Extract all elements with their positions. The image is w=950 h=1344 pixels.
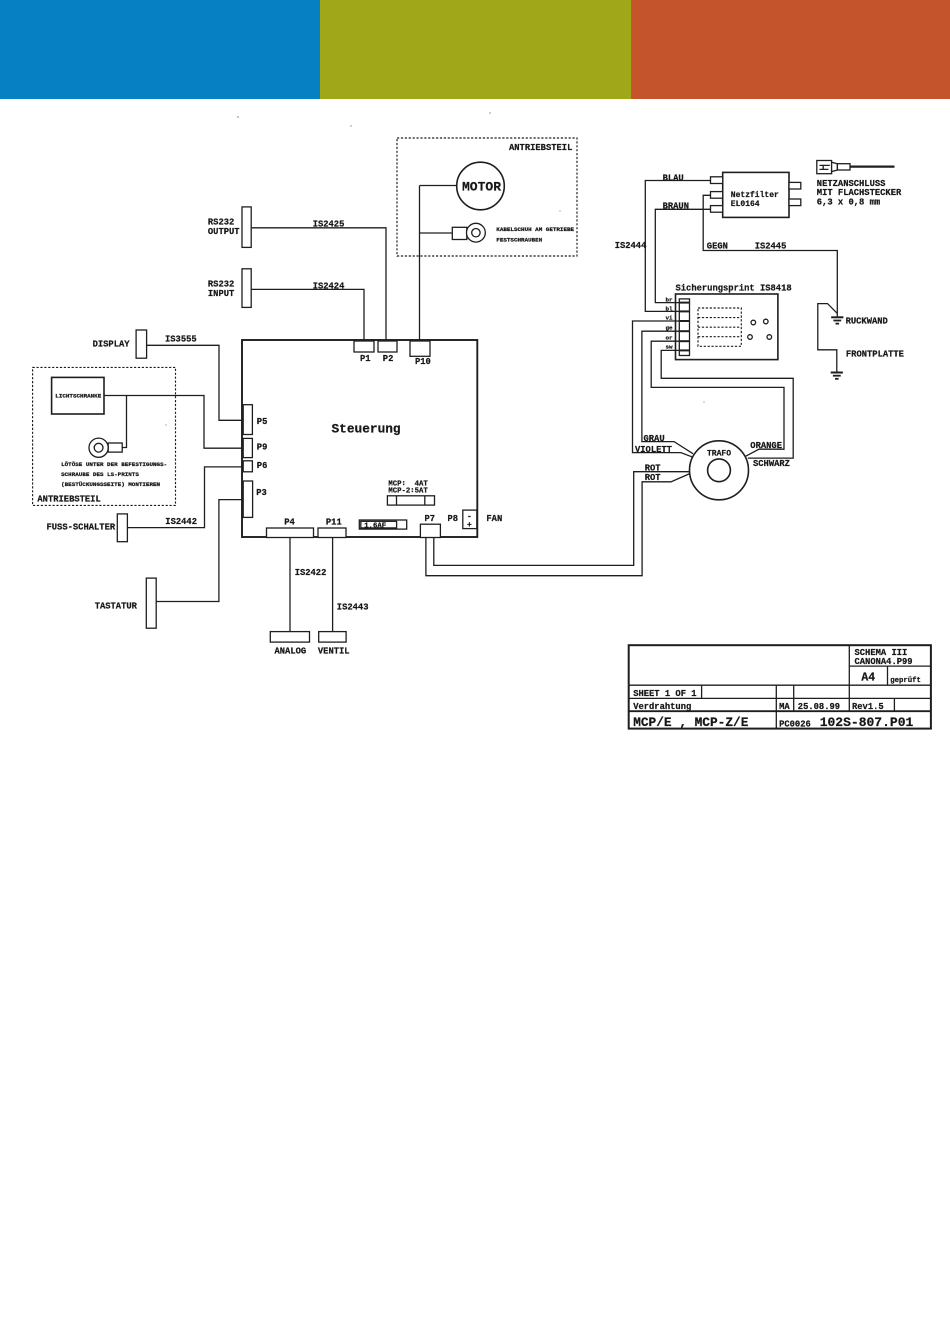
svg-text:VIOLETT: VIOLETT <box>635 445 673 455</box>
connector P4 <box>267 518 314 538</box>
wire net IS2442 to P6 <box>127 467 243 528</box>
svg-text:GEGN: GEGN <box>707 241 728 251</box>
svg-text:FAN: FAN <box>486 514 502 524</box>
wire net IS3555 to P5 <box>147 345 244 420</box>
svg-text:6,3 x 0,8 mm: 6,3 x 0,8 mm <box>817 198 880 208</box>
connector ANALOG <box>270 632 309 657</box>
titleblock frame <box>629 645 931 728</box>
svg-text:P2: P2 <box>383 354 394 364</box>
svg-text:ANTRIEBSTEIL: ANTRIEBSTEIL <box>509 143 572 153</box>
svg-text:Steuerung: Steuerung <box>332 422 401 437</box>
svg-text:P5: P5 <box>257 417 268 427</box>
filter Netzfilter EL0164 <box>723 172 789 217</box>
note NETZANSCHLUSS <box>817 179 902 208</box>
header band olive <box>320 0 631 99</box>
svg-text:RUCKWAND: RUCKWAND <box>846 316 888 326</box>
svg-text:IS3555: IS3555 <box>165 334 197 344</box>
net BRAUN <box>655 201 710 302</box>
connector TASTATUR <box>95 578 157 628</box>
note LOETOESE <box>61 461 167 488</box>
svg-text:Netzfilter: Netzfilter <box>731 191 779 200</box>
hole 1 <box>751 320 756 325</box>
svg-text:OUTPUT: OUTPUT <box>208 227 240 237</box>
svg-text:IS2424: IS2424 <box>313 282 345 292</box>
svg-text:ORANGE: ORANGE <box>750 441 782 451</box>
svg-text:P9: P9 <box>257 443 268 453</box>
connector P6 <box>243 461 267 472</box>
scan specks <box>165 112 705 426</box>
svg-text:MOTOR: MOTOR <box>462 180 501 195</box>
wire lichtschranke to P9 <box>104 396 243 449</box>
svg-text:MCP-2∶5AT: MCP-2∶5AT <box>388 488 428 496</box>
svg-text:SCHRAUBE DES LS-PRINTS: SCHRAUBE DES LS-PRINTS <box>61 471 139 478</box>
connector P1 <box>354 341 374 364</box>
pin netzfilter left 3 <box>711 206 723 213</box>
pin bl <box>666 305 690 312</box>
wire motor to node <box>420 185 457 187</box>
svg-text:SCHWARZ: SCHWARZ <box>753 459 790 469</box>
connector RS232 INPUT <box>208 269 251 308</box>
header band orange <box>631 0 950 99</box>
svg-text:IS2422: IS2422 <box>295 568 327 578</box>
svg-text:sw: sw <box>666 344 674 351</box>
svg-text:MCP/E , MCP-Z/E: MCP/E , MCP-Z/E <box>633 715 749 730</box>
cable lug (Kabelschuh) top <box>452 223 485 242</box>
connector P10 <box>410 341 431 367</box>
svg-text:LÖTÖSE UNTER DER BEFESTIGUNGS-: LÖTÖSE UNTER DER BEFESTIGUNGS- <box>61 461 167 468</box>
svg-text:bl: bl <box>666 305 674 312</box>
pin vi <box>666 315 690 322</box>
controller Steuerung U1 <box>242 340 477 537</box>
net VIOLETT vi to trafo <box>633 321 693 457</box>
wire P11 to VENTIL net IS2443 <box>332 538 334 632</box>
pin netzfilter left 2 <box>711 192 723 199</box>
svg-text:1,6AF: 1,6AF <box>364 522 386 530</box>
svg-text:102S-807.P01: 102S-807.P01 <box>820 715 914 730</box>
svg-text:FESTSCHRAUBEN: FESTSCHRAUBEN <box>496 237 542 244</box>
wire net IS2424 to P1 <box>251 289 364 341</box>
transformer TRAFO T1 <box>690 441 749 500</box>
fuse F1 1,6AF <box>359 520 406 530</box>
fuse F2 MCP 4AT <box>387 480 434 505</box>
hole 3 <box>748 335 753 340</box>
svg-text:IS2425: IS2425 <box>313 220 345 230</box>
svg-text:P11: P11 <box>326 518 342 528</box>
svg-text:+: + <box>467 521 472 530</box>
svg-text:P4: P4 <box>284 518 295 528</box>
svg-text:Sicherungsprint IS8418: Sicherungsprint IS8418 <box>676 284 792 294</box>
net ORANGE or to trafo <box>651 341 784 456</box>
pin ge <box>666 325 690 332</box>
svg-text:SHEET 1 OF 1: SHEET 1 OF 1 <box>633 689 696 699</box>
sensor LICHTSCHRANKE <box>52 377 104 414</box>
svg-text:INPUT: INPUT <box>208 289 235 299</box>
board Sicherungsprint IS8418 <box>676 284 792 360</box>
svg-text:ROT: ROT <box>645 473 662 483</box>
svg-text:MIT FLACHSTECKER: MIT FLACHSTECKER <box>817 188 902 198</box>
wire net IS2425 to P2 <box>251 228 386 341</box>
svg-text:ge: ge <box>666 325 674 332</box>
svg-text:VENTIL: VENTIL <box>318 647 350 657</box>
connector DISPLAY <box>93 330 147 358</box>
svg-text:KABELSCHUH AM GETRIEBE: KABELSCHUH AM GETRIEBE <box>496 226 574 233</box>
svg-text:PC0026: PC0026 <box>779 719 811 729</box>
svg-text:IS2445: IS2445 <box>755 242 787 252</box>
svg-text:TASTATUR: TASTATUR <box>95 602 138 612</box>
fuse positions (dashed) <box>698 308 741 346</box>
svg-text:ANTRIEBSTEIL: ANTRIEBSTEIL <box>37 495 100 505</box>
connector P11 <box>318 518 346 538</box>
connector P2 <box>378 341 397 364</box>
svg-text:(BESTÜCKUNGSSEITE) MONTIEREN: (BESTÜCKUNGSSEITE) MONTIEREN <box>61 481 160 488</box>
connector FUSS-SCHALTER <box>47 514 128 542</box>
svg-text:25.08.99: 25.08.99 <box>798 702 840 712</box>
svg-text:P6: P6 <box>257 461 268 471</box>
cable lug (left) <box>89 438 122 457</box>
note KABELSCHUH AM GETRIEBE FESTSCHRAUBEN <box>496 226 574 244</box>
net SCHWARZ sw to trafo <box>661 350 793 458</box>
svg-text:IS2443: IS2443 <box>337 603 369 613</box>
svg-text:MA: MA <box>779 702 790 712</box>
hole 2 <box>764 319 769 324</box>
svg-text:IS2444: IS2444 <box>615 241 647 251</box>
svg-text:geprüft: geprüft <box>890 677 921 685</box>
wire tastatur to P3 <box>156 500 243 602</box>
svg-text:A4: A4 <box>861 672 875 685</box>
net ROT 2 P7 to trafo <box>426 474 690 576</box>
svg-text:FRONTPLATTE: FRONTPLATTE <box>846 349 904 359</box>
ground RUCKWAND <box>831 313 843 323</box>
svg-text:IS2442: IS2442 <box>165 517 197 527</box>
connector P3 <box>243 481 267 517</box>
enclosure ANTRIEBSTEIL (left dashed box) <box>33 367 176 505</box>
svg-text:LICHTSCHRANKE: LICHTSCHRANKE <box>55 393 101 400</box>
pin br <box>666 297 690 304</box>
connector VENTIL <box>318 632 350 657</box>
svg-text:CANONA4.P99: CANONA4.P99 <box>855 657 913 667</box>
motor M1 <box>457 162 505 210</box>
pin sw <box>666 344 690 351</box>
svg-text:P1: P1 <box>360 354 371 364</box>
terminal Flachstecker symbol <box>817 161 895 174</box>
pin netzfilter right 1 <box>789 182 801 189</box>
wire drive vertical to P10 <box>419 186 421 342</box>
connector P9 <box>243 438 267 457</box>
net GRAU ge to trafo <box>642 331 693 454</box>
wire node to lug <box>420 232 453 234</box>
net ROT 1 P7 to trafo <box>434 472 690 566</box>
svg-text:DISPLAY: DISPLAY <box>93 339 131 349</box>
enclosure ANTRIEBSTEIL (top dashed box) <box>397 138 577 256</box>
pin netzfilter left 1 <box>711 177 723 184</box>
svg-text:FUSS-SCHALTER: FUSS-SCHALTER <box>47 522 116 532</box>
wire ruckwand-frontplatte link <box>818 304 838 373</box>
svg-text:BLAU: BLAU <box>663 174 684 184</box>
svg-text:or: or <box>666 334 674 341</box>
header band blue <box>0 0 320 99</box>
svg-text:P7: P7 <box>425 514 436 524</box>
svg-text:GRAU: GRAU <box>644 434 665 444</box>
svg-text:br: br <box>666 297 674 304</box>
svg-text:P3: P3 <box>256 488 267 498</box>
ground FRONTPLATTE <box>831 373 843 379</box>
svg-text:Verdrahtung: Verdrahtung <box>633 702 691 712</box>
wire P4 to ANALOG net IS2422 <box>289 538 291 632</box>
wire branch to lug <box>122 396 126 448</box>
connector P8 fan <box>448 510 477 530</box>
svg-text:ANALOG: ANALOG <box>275 647 307 657</box>
net GEGN IS2445 <box>703 195 837 313</box>
svg-text:P10: P10 <box>415 357 431 367</box>
svg-text:TRAFO: TRAFO <box>707 450 731 459</box>
pin or <box>666 334 690 341</box>
connector RS232 OUTPUT <box>208 207 251 248</box>
svg-text:P8: P8 <box>448 514 459 524</box>
connector P5 <box>243 405 267 435</box>
pin netzfilter right 2 <box>789 199 801 206</box>
svg-text:Rev1.5: Rev1.5 <box>852 702 884 712</box>
svg-text:EL0164: EL0164 <box>731 200 760 209</box>
connector P7 <box>420 514 440 538</box>
net BLAU <box>645 174 710 312</box>
hole 4 <box>767 335 772 340</box>
